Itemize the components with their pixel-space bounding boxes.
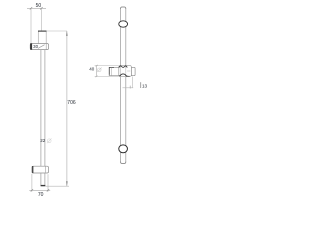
dimension 70 tick right xyxy=(47,189,49,191)
rail top collar (side view) xyxy=(38,31,46,43)
wall bracket (side view) xyxy=(30,44,48,50)
rail bottom dark end cap xyxy=(41,185,46,186)
slider left wing xyxy=(109,67,119,75)
dimension 13 line xyxy=(123,87,134,89)
rail bottom cap accent xyxy=(121,162,126,164)
svg-text:30: 30 xyxy=(33,44,38,49)
dimension 13 tick small xyxy=(129,86,131,89)
extension line top (rail top to 706 dim) xyxy=(47,30,67,32)
dimension 50 tick right xyxy=(40,7,42,9)
extension line bottom (rail bottom to 706 dim) xyxy=(45,185,69,187)
dimension 70 extension left xyxy=(31,174,33,192)
dimension 40 tick bottom xyxy=(96,76,98,77)
svg-text:40: 40 xyxy=(89,66,95,71)
slider top dark saddle xyxy=(119,66,128,68)
slider bottom dark arch xyxy=(119,74,127,76)
top knob xyxy=(119,21,128,27)
bracket dark wall plate edge xyxy=(30,43,32,49)
slider left wing dark corner xyxy=(109,67,114,74)
rail top cap accent xyxy=(121,7,126,9)
slider left wing inner line xyxy=(110,68,112,76)
slider clamp bottom dark edge xyxy=(126,75,130,77)
svg-text:22: 22 xyxy=(40,138,46,143)
holder dark left edge xyxy=(32,166,34,173)
dimension 70 line xyxy=(29,189,50,191)
dimension 13 tick tall xyxy=(140,82,142,88)
dimension 50 tick left xyxy=(30,7,32,9)
dimension 13 extension from slider xyxy=(132,77,134,89)
rail top collar dark top edge xyxy=(38,30,47,32)
extension line left of 50 xyxy=(30,9,32,43)
svg-text:706: 706 xyxy=(67,100,76,106)
rail through slider xyxy=(121,66,126,76)
svg-text:70: 70 xyxy=(38,192,44,198)
rail tube (side view) xyxy=(41,50,45,167)
bracket inner cap line xyxy=(45,44,47,50)
dimension 706 arrow down xyxy=(66,181,67,186)
dimension 40 extension bottom xyxy=(95,75,119,77)
dimension 50 line xyxy=(27,7,46,9)
dimension 706 arrow up xyxy=(66,31,67,36)
dimension 706 line xyxy=(66,31,68,186)
holder inner cap line xyxy=(45,166,47,173)
extension line right of 50 xyxy=(40,9,42,31)
rail tube (front view) xyxy=(121,7,126,164)
faint diameter symbol right of 40 xyxy=(97,68,101,73)
slider right cap xyxy=(131,67,135,75)
slider screw slot xyxy=(127,70,130,72)
dimension 70 extension right xyxy=(47,174,49,191)
dimension 70 tick left xyxy=(31,189,33,191)
faint diameter symbol xyxy=(47,138,52,143)
dimension 40 tick top xyxy=(96,65,98,66)
slider central clamp xyxy=(119,66,132,77)
svg-text:13: 13 xyxy=(142,84,148,89)
handset holder (side view) xyxy=(32,166,49,173)
bottom ring (front view) xyxy=(119,145,128,153)
dimension 40 extension top xyxy=(95,65,119,67)
bracket lever diagonal xyxy=(38,45,45,49)
dimension 40 line xyxy=(96,66,98,77)
rail tube below holder xyxy=(41,173,45,186)
